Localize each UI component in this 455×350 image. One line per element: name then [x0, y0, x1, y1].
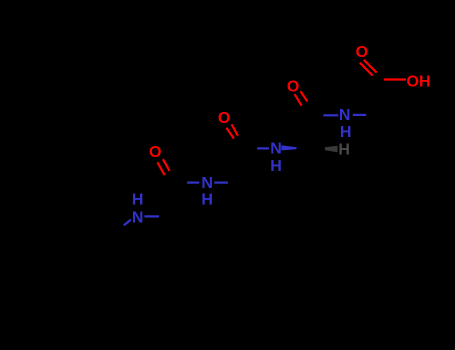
svg-text:N: N [270, 140, 282, 157]
svg-text:O: O [356, 44, 368, 61]
svg-text:N: N [339, 107, 351, 124]
svg-text:O: O [149, 144, 161, 161]
svg-text:OH: OH [407, 73, 431, 90]
svg-text:H: H [340, 124, 352, 141]
C2=O2 double bond (red halves) [226, 124, 238, 138]
svg-text:H: H [270, 158, 282, 175]
C3=O3 double bond (red halves) [295, 91, 308, 106]
stereo H wedge (gray half) [325, 146, 338, 153]
C4-OH single bond (red half) [384, 78, 406, 80]
N1-CH2 bond (blue half) [144, 215, 159, 217]
C4=O4 double bond (red halves) [360, 60, 377, 76]
N3-CA stereo wedge (blue half) [281, 145, 296, 150]
C3-N4 bond (blue half) [323, 114, 338, 116]
C1=O1 double bond (red halves) [157, 159, 169, 175]
N1-trityl C bond (blue half) [124, 220, 131, 226]
N2-CH2 bond (blue half) [214, 182, 228, 184]
N4-CH2 bond (blue half) [353, 114, 366, 116]
C1-N2 bond (blue half) [187, 182, 199, 184]
svg-text:O: O [218, 110, 230, 127]
svg-text:H: H [132, 192, 144, 209]
C2-N3 bond (blue half) [257, 147, 269, 149]
svg-text:N: N [201, 175, 213, 192]
svg-text:N: N [132, 209, 144, 226]
svg-text:O: O [287, 78, 299, 95]
svg-text:H: H [201, 192, 213, 209]
svg-text:H: H [338, 141, 350, 158]
